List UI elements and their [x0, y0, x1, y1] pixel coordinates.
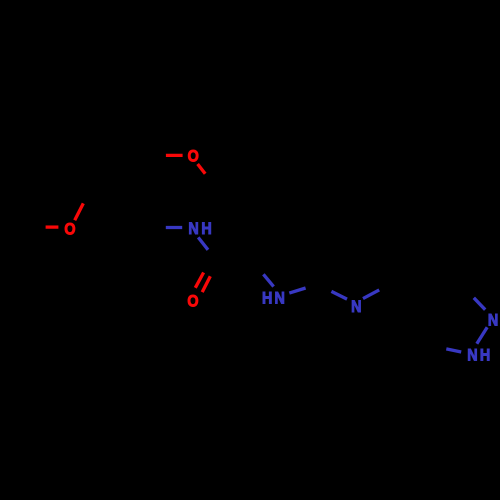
wire bond N-C(=O) (amide diagonal, half-bond)	[198, 237, 208, 249]
wire bond C=O3 line b (carbonyl double bond, half-bond)	[202, 276, 210, 292]
svg-text:N: N	[351, 298, 361, 316]
svg-text:H: H	[262, 290, 272, 308]
svg-text:N: N	[467, 347, 477, 365]
atom O2 (methoxy left oxygen)	[64, 221, 75, 239]
wire bond O2-Caryl (methoxy left diagonal, half-bond)	[75, 203, 84, 220]
wire bond C3'-N2' (pyrazole top diagonal, half-bond)	[474, 298, 485, 310]
wire bond C2-N1H (pyrrole upper diagonal, half-bond)	[263, 274, 273, 286]
wire bond CH3-O1 (methoxy top, half-bond)	[166, 154, 183, 157]
wire bond CH3-O2 (methoxy left, half-bond)	[46, 225, 59, 228]
svg-text:O: O	[64, 221, 75, 239]
wire bond CH2-N (amide, half-bond)	[166, 226, 182, 229]
atom N amide (label NH)	[188, 220, 198, 238]
wire bond C=O3 line a (carbonyl double bond, half-bond)	[195, 273, 203, 288]
wire bond N1H-C7a (pyrrole right diagonal, half-bond)	[289, 288, 305, 293]
svg-text:N: N	[188, 220, 198, 238]
wire bond C5'-N1'H (pyrazole left, half-bond)	[446, 349, 461, 352]
wire bond N7-C6 (pyridine right diagonal, half-bond)	[363, 290, 379, 299]
atom N1 pyrrole (label HN)	[262, 290, 272, 308]
wire bond N2'-N1' (pyrazole N-N bond, full)	[477, 327, 487, 343]
svg-text:H: H	[480, 347, 490, 365]
wire bond O1-Caryl (methoxy top diagonal, half-bond)	[198, 164, 206, 174]
atom O1 (methoxy top oxygen)	[188, 148, 199, 166]
atom N2' pyrazole nitrogen	[488, 311, 498, 329]
svg-text:O: O	[188, 148, 199, 166]
atom N1' pyrazole NH	[467, 347, 477, 365]
svg-text:N: N	[488, 311, 498, 329]
svg-text:N: N	[275, 290, 285, 308]
atom O3 (carbonyl oxygen)	[187, 292, 198, 310]
svg-text:O: O	[187, 292, 198, 310]
svg-text:H: H	[201, 220, 211, 238]
atom N7 pyridine-type nitrogen	[351, 298, 361, 316]
wire bond C7a-N7 (pyridine left diagonal, half-bond)	[331, 291, 347, 299]
